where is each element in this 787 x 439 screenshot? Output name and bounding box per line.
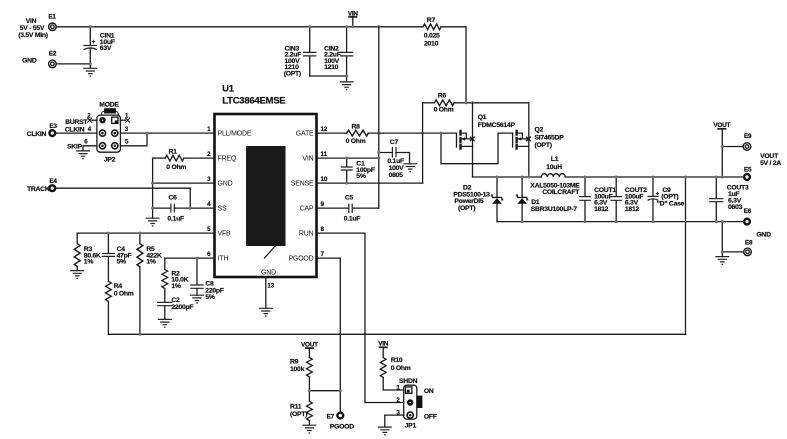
svg-text:0 Ohm: 0 Ohm bbox=[434, 106, 454, 113]
resistor R11 bbox=[290, 401, 316, 433]
wire JP1 pin3 to ground bbox=[378, 415, 404, 435]
svg-text:VIN: VIN bbox=[26, 18, 37, 25]
svg-text:0.1uF: 0.1uF bbox=[344, 216, 361, 223]
terminal E1 bbox=[48, 13, 56, 30]
transistor Q1 bbox=[457, 103, 516, 177]
svg-text:1%: 1% bbox=[84, 259, 94, 266]
inductor L1 bbox=[530, 156, 585, 196]
svg-text:1: 1 bbox=[396, 384, 400, 391]
diode D2 bbox=[453, 177, 503, 222]
resistor R9 bbox=[290, 358, 312, 402]
svg-text:PLL/MODE: PLL/MODE bbox=[218, 131, 252, 138]
svg-text:7: 7 bbox=[321, 251, 325, 258]
svg-text:GND: GND bbox=[218, 181, 233, 188]
power flag VOUT bottom bbox=[301, 341, 318, 357]
svg-text:E8: E8 bbox=[745, 239, 753, 246]
svg-text:1: 1 bbox=[207, 126, 211, 133]
svg-text:2200pF: 2200pF bbox=[171, 304, 193, 311]
svg-text:E3: E3 bbox=[49, 123, 57, 130]
wire pin3 GND bbox=[153, 182, 215, 184]
svg-text:1812: 1812 bbox=[625, 206, 640, 213]
svg-text:63V: 63V bbox=[100, 45, 112, 52]
capacitor C2 bbox=[157, 297, 193, 327]
pin 1 PLL/MODE bbox=[207, 126, 252, 137]
svg-text:9: 9 bbox=[321, 201, 325, 208]
svg-text:10uH: 10uH bbox=[546, 164, 562, 171]
resistor R2 bbox=[162, 258, 189, 302]
svg-text:E2: E2 bbox=[49, 51, 57, 58]
svg-text:10: 10 bbox=[321, 176, 328, 183]
transistor Q2 bbox=[513, 103, 565, 177]
wire CIN3 bottom to CIN2 bbox=[310, 75, 347, 77]
wire VOUT rail bbox=[585, 176, 743, 178]
wire TRACK to SS bbox=[55, 188, 190, 208]
svg-text:CAP: CAP bbox=[300, 206, 314, 213]
svg-text:R8: R8 bbox=[352, 124, 361, 131]
capacitor CIN1 bbox=[83, 27, 114, 64]
pin 12 GATE bbox=[296, 126, 328, 137]
svg-text:2: 2 bbox=[396, 397, 400, 404]
resistor R6 bbox=[423, 92, 466, 113]
svg-text:E9: E9 bbox=[744, 133, 752, 140]
svg-text:TRACK: TRACK bbox=[27, 186, 50, 193]
pin 2 stub with X bbox=[65, 112, 97, 126]
svg-text:5V - 55V: 5V - 55V bbox=[20, 25, 45, 32]
svg-text:5: 5 bbox=[125, 138, 129, 145]
wire VIN vertical to pin11/CAP bbox=[378, 27, 380, 208]
svg-text:E4: E4 bbox=[49, 178, 57, 185]
svg-text:8: 8 bbox=[321, 226, 325, 233]
svg-text:C5: C5 bbox=[345, 195, 354, 202]
svg-text:100k: 100k bbox=[290, 366, 305, 373]
capacitor C6 bbox=[153, 195, 215, 223]
svg-text:CLKIN: CLKIN bbox=[65, 126, 85, 133]
svg-text:BURST: BURST bbox=[65, 119, 88, 126]
wire E2 to CIN1 bbox=[56, 63, 90, 65]
terminal E5 bbox=[744, 166, 752, 180]
svg-text:2010: 2010 bbox=[424, 41, 439, 48]
connector JP1 SHDN bbox=[399, 378, 422, 430]
svg-text:VIN: VIN bbox=[302, 156, 313, 163]
junction dots R7/R6/Q1 bbox=[465, 101, 468, 104]
svg-text:0 Ohm: 0 Ohm bbox=[391, 365, 411, 372]
pin 7 PGOOD bbox=[288, 251, 324, 262]
capacitor COUT2 bbox=[611, 177, 648, 222]
capacitor COUT1 bbox=[579, 177, 616, 222]
svg-text:100V: 100V bbox=[389, 165, 405, 172]
svg-text:OFF: OFF bbox=[424, 413, 437, 420]
svg-text:R4: R4 bbox=[114, 283, 123, 290]
wire SENSE vertical bbox=[422, 103, 424, 183]
svg-text:Q2: Q2 bbox=[535, 127, 544, 134]
svg-text:VOUT: VOUT bbox=[760, 153, 779, 160]
svg-text:4: 4 bbox=[88, 126, 92, 133]
pin 5 wire up to pin3 net bbox=[120, 132, 148, 146]
capacitor CIN2 bbox=[324, 27, 353, 76]
wire GND rail bbox=[497, 221, 743, 223]
node junction dots input rail bbox=[89, 25, 92, 28]
terminal E9 bbox=[722, 133, 752, 150]
svg-text:FREQ: FREQ bbox=[218, 156, 237, 163]
power flag VIN bbox=[348, 10, 359, 27]
svg-text:R10: R10 bbox=[391, 357, 403, 364]
power flag VIN bottom bbox=[378, 341, 389, 358]
pin 13 GND pad wire bbox=[259, 277, 275, 316]
svg-text:1: 1 bbox=[125, 112, 129, 119]
pin 4 SS bbox=[207, 201, 227, 212]
wire VFB row bbox=[77, 232, 214, 234]
connector JP2 MODE bbox=[97, 101, 121, 163]
svg-text:13: 13 bbox=[267, 283, 274, 290]
svg-text:11: 11 bbox=[321, 151, 328, 158]
wire SW rail bbox=[473, 176, 542, 178]
power flag VOUT top bbox=[713, 122, 730, 177]
svg-text:(OPT): (OPT) bbox=[661, 194, 678, 201]
op-amp U1 LTC3864EMSE body bbox=[215, 83, 317, 277]
svg-text:VOUT: VOUT bbox=[713, 122, 730, 129]
svg-text:1812: 1812 bbox=[594, 206, 609, 213]
svg-text:(3.5V Min): (3.5V Min) bbox=[18, 32, 48, 39]
svg-text:VFB: VFB bbox=[218, 231, 232, 238]
pin 4 label bbox=[65, 126, 92, 134]
svg-text:D1: D1 bbox=[531, 199, 540, 206]
svg-text:GND: GND bbox=[22, 57, 37, 64]
ground below CIN2 bbox=[340, 76, 354, 90]
wire RUN pin8 bbox=[317, 233, 404, 402]
svg-text:5%: 5% bbox=[356, 173, 366, 180]
svg-text:(OPT): (OPT) bbox=[458, 205, 475, 212]
svg-text:0.1uF: 0.1uF bbox=[167, 216, 184, 223]
svg-text:E6: E6 bbox=[744, 208, 752, 215]
svg-text:0 Ohm: 0 Ohm bbox=[166, 164, 186, 171]
svg-text:FDMC5614P: FDMC5614P bbox=[478, 122, 516, 129]
svg-text:E5: E5 bbox=[744, 166, 752, 173]
wire R7 to sense rail bbox=[465, 27, 467, 103]
node VIN input labels bbox=[18, 18, 48, 39]
svg-text:1%: 1% bbox=[171, 283, 181, 290]
JP1 pin labels bbox=[396, 384, 436, 420]
terminal E6 bbox=[744, 208, 752, 224]
pin 11 VIN bbox=[302, 151, 327, 162]
svg-text:0805: 0805 bbox=[389, 172, 404, 179]
wire R9/R11 node to PGOOD bbox=[309, 390, 340, 392]
capacitor C1 bbox=[341, 158, 375, 183]
resistor R7 bbox=[423, 17, 466, 47]
svg-text:3: 3 bbox=[125, 126, 129, 133]
svg-text:(OPT): (OPT) bbox=[535, 142, 552, 149]
svg-text:5%: 5% bbox=[117, 259, 127, 266]
wire FREQ gnd vertical bbox=[152, 158, 154, 218]
svg-text:E7: E7 bbox=[327, 414, 335, 421]
svg-text:0 Ohm: 0 Ohm bbox=[346, 138, 366, 145]
svg-text:SHDN: SHDN bbox=[399, 378, 418, 385]
capacitor CIN3 bbox=[284, 27, 317, 78]
pin 3 wire to IC pin1 bbox=[120, 126, 214, 133]
pin 10 SENSE bbox=[291, 176, 328, 187]
pin 2 FREQ bbox=[207, 151, 237, 162]
terminal E4 TRACK bbox=[27, 178, 57, 193]
capacitor C9 bbox=[647, 177, 684, 222]
pin 3 GND bbox=[207, 176, 233, 187]
svg-text:SS: SS bbox=[218, 206, 227, 213]
pin 6 ITH bbox=[207, 251, 228, 262]
wire ITH row bbox=[165, 257, 215, 259]
svg-text:5V / 2A: 5V / 2A bbox=[760, 160, 781, 167]
svg-text:E1: E1 bbox=[48, 13, 56, 20]
svg-text:GND: GND bbox=[756, 231, 771, 238]
svg-text:0.1uF: 0.1uF bbox=[387, 158, 404, 165]
wire SENSE pin10 bbox=[317, 182, 423, 184]
svg-text:2: 2 bbox=[87, 112, 91, 119]
svg-text:SENSE: SENSE bbox=[291, 181, 314, 188]
svg-text:MODE: MODE bbox=[99, 101, 119, 108]
svg-text:5: 5 bbox=[207, 226, 211, 233]
svg-text:12: 12 bbox=[321, 126, 328, 133]
svg-text:6: 6 bbox=[84, 138, 88, 145]
capacitor C5 bbox=[317, 195, 379, 223]
svg-text:(OPT): (OPT) bbox=[290, 411, 307, 418]
svg-text:L1: L1 bbox=[551, 156, 559, 163]
junction dots output bbox=[584, 176, 587, 179]
svg-text:6: 6 bbox=[207, 251, 211, 258]
ground below R1 net bbox=[146, 218, 160, 226]
wire E3 to JP2 pin4 bbox=[55, 132, 97, 134]
svg-text:GND: GND bbox=[261, 269, 276, 276]
svg-text:RUN: RUN bbox=[299, 231, 314, 238]
svg-text:U1: U1 bbox=[222, 83, 235, 94]
junction dots SW rail bbox=[496, 176, 499, 179]
svg-text:JP2: JP2 bbox=[104, 156, 116, 163]
capacitor C4 bbox=[102, 233, 132, 281]
ground below CIN1 bbox=[83, 64, 97, 76]
svg-text:0.025: 0.025 bbox=[424, 32, 440, 39]
capacitor C7 bbox=[379, 139, 417, 179]
junction dots top rail bbox=[308, 25, 311, 28]
svg-text:SKIP: SKIP bbox=[67, 143, 83, 150]
terminal E7 PGOOD bbox=[327, 413, 355, 431]
wire E6 to E8 vertical bbox=[721, 222, 723, 257]
wire pin11 VIN bbox=[317, 157, 379, 159]
svg-text:0 Ohm: 0 Ohm bbox=[114, 290, 134, 297]
svg-text:1%: 1% bbox=[146, 259, 156, 266]
svg-text:R7: R7 bbox=[427, 17, 436, 24]
svg-text:2: 2 bbox=[207, 151, 211, 158]
capacitor C8 bbox=[190, 258, 224, 303]
svg-text:"D" Case: "D" Case bbox=[657, 201, 685, 208]
svg-text:PGOOD: PGOOD bbox=[288, 256, 313, 263]
svg-text:Q1: Q1 bbox=[478, 114, 487, 121]
svg-text:D2: D2 bbox=[463, 184, 472, 191]
svg-text:LTC3864EMSE: LTC3864EMSE bbox=[222, 95, 285, 106]
pin 1 stub with X bbox=[120, 112, 130, 122]
pin 6 wire to ground bbox=[67, 138, 97, 158]
svg-text:R11: R11 bbox=[290, 403, 302, 410]
svg-text:ITH: ITH bbox=[218, 256, 229, 263]
svg-text:PGOOD: PGOOD bbox=[330, 424, 354, 431]
svg-text:3: 3 bbox=[207, 176, 211, 183]
diode D1 bbox=[516, 177, 577, 222]
wire VIN top rail bbox=[56, 26, 423, 28]
pin 5 VFB bbox=[207, 226, 231, 237]
ground below E8 bbox=[715, 257, 729, 265]
svg-text:SBR3U100LP-7: SBR3U100LP-7 bbox=[531, 206, 578, 213]
svg-text:C6: C6 bbox=[169, 195, 178, 202]
svg-text:COILCRAFT: COILCRAFT bbox=[542, 189, 580, 196]
wire feedback rail VOUT bbox=[108, 333, 685, 335]
svg-text:GATE: GATE bbox=[296, 131, 314, 138]
wire gate loop to Q2 bbox=[441, 133, 513, 164]
svg-text:R9: R9 bbox=[290, 358, 299, 365]
wire source rail bbox=[466, 102, 529, 104]
resistor R1 bbox=[153, 148, 215, 170]
svg-text:C7: C7 bbox=[390, 139, 399, 146]
svg-text:CLKIN: CLKIN bbox=[27, 131, 47, 138]
resistor R8 bbox=[317, 124, 457, 145]
terminal E2 bbox=[22, 51, 57, 68]
pin 8 RUN bbox=[299, 226, 325, 237]
svg-text:SI7465DP: SI7465DP bbox=[535, 134, 565, 141]
terminal E8 bbox=[722, 231, 771, 255]
svg-text:1210: 1210 bbox=[324, 64, 339, 71]
svg-text:(OPT): (OPT) bbox=[284, 71, 301, 78]
svg-text:0603: 0603 bbox=[728, 204, 743, 211]
svg-text:5%: 5% bbox=[205, 294, 215, 301]
resistor R10 bbox=[380, 357, 411, 390]
svg-text:4: 4 bbox=[207, 201, 211, 208]
terminal E3 bbox=[27, 123, 58, 138]
svg-text:R1: R1 bbox=[169, 148, 178, 155]
svg-text:C8: C8 bbox=[205, 281, 214, 288]
wire VOUT feedback vertical bbox=[685, 177, 687, 334]
svg-text:JP1: JP1 bbox=[405, 423, 417, 430]
resistor R5 bbox=[137, 233, 162, 334]
pin 9 CAP bbox=[300, 201, 325, 212]
svg-text:ON: ON bbox=[424, 388, 434, 395]
wire PGOOD pin7 bbox=[317, 258, 341, 411]
resistor R3 bbox=[70, 233, 101, 278]
resistor R4 bbox=[106, 281, 134, 334]
node VOUT load label bbox=[760, 153, 781, 167]
capacitor COUT3 bbox=[709, 177, 749, 222]
svg-text:R6: R6 bbox=[438, 92, 447, 99]
